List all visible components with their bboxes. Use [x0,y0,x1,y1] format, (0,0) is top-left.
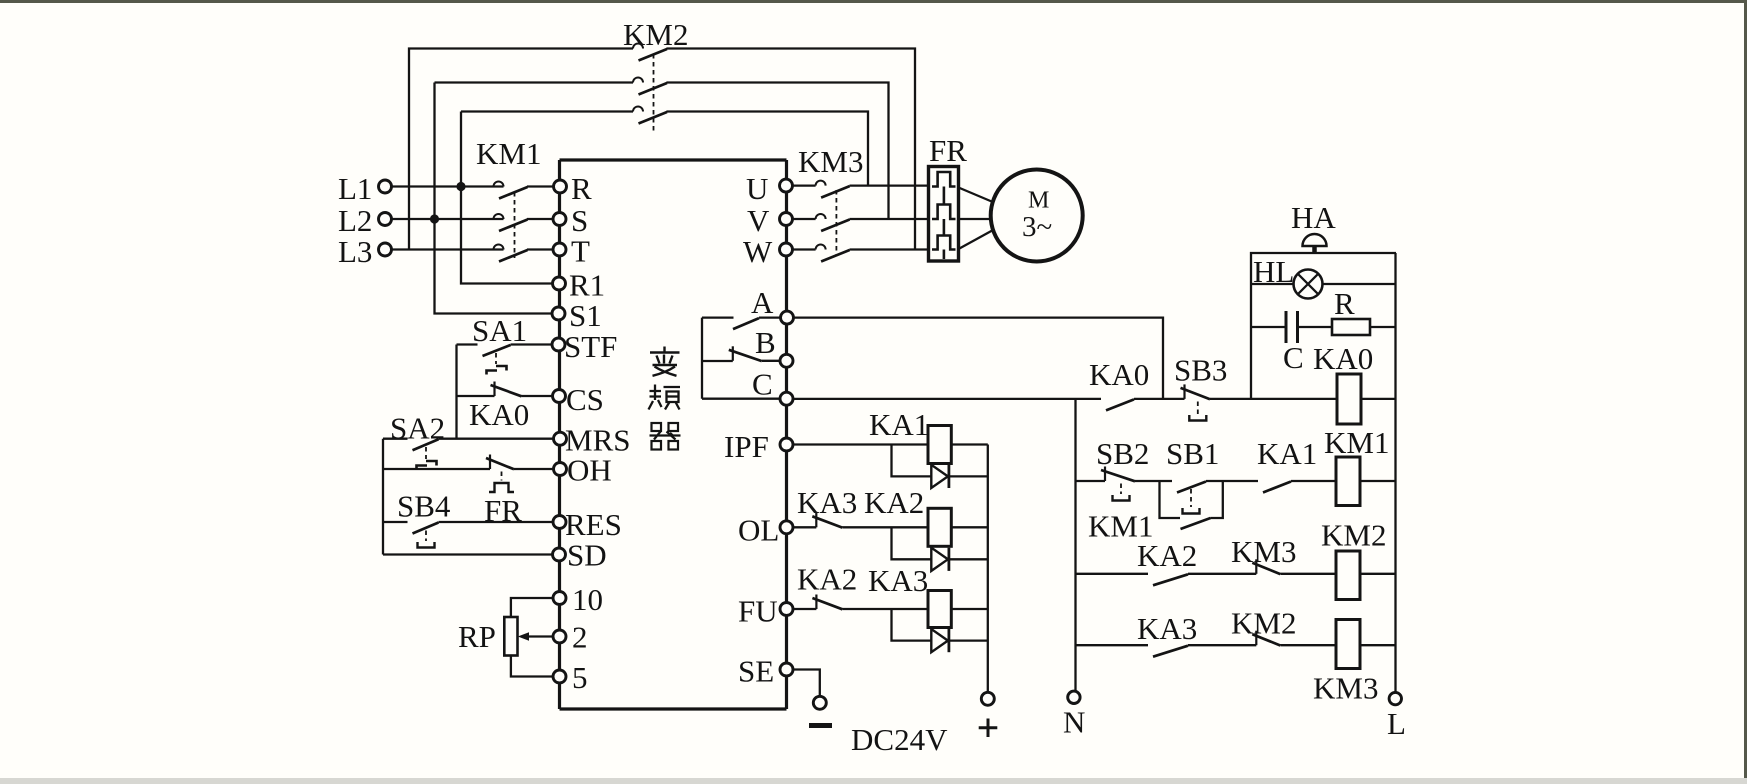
motor M 3~ [991,170,1083,262]
wire IPF row [793,443,928,445]
svg-text:CS: CS [566,382,604,417]
relay contact KA0 NC [491,382,522,397]
wire KM2 row2 right [667,83,889,220]
wire KM3-3 to FR [850,248,929,250]
svg-text:C: C [752,367,773,402]
svg-text:KA3: KA3 [1137,611,1197,646]
svg-text:KA1: KA1 [869,407,929,442]
terminal CS [553,390,566,403]
relay contact KA2 NO [1153,574,1188,585]
svg-text:OL: OL [738,513,779,548]
wire KM2 row3 right [667,112,869,187]
actuator dashes SB2 [1120,484,1122,495]
wire L2 row [392,218,504,220]
actuator dashes SB3 [1197,402,1199,415]
actuator dashes SA2 [425,447,427,459]
wire row1 a [1134,398,1185,400]
wire KM2 row3 left [461,110,633,112]
linkage KM1 [514,192,516,258]
svg-text:HA: HA [1291,200,1336,235]
svg-text:DC24V: DC24V [851,722,948,757]
wire row3 c [1360,573,1396,575]
svg-text:R: R [1334,286,1355,321]
wire row1 b [1210,398,1337,400]
relay contact KA2 NC [812,595,842,610]
svg-text:U: U [746,171,768,206]
wire IPF out [951,443,988,445]
wire cap to R [1299,326,1332,328]
terminal L3 [379,243,392,256]
wire HL box top [1251,253,1396,399]
contactor coil KM3 [1336,620,1360,669]
wire SD row [383,553,553,555]
pushbutton SB3 NC [1181,384,1211,399]
wire KA2 diode out [949,558,988,560]
svg-text:N: N [1063,705,1085,740]
relay coil KA2 [928,508,951,546]
wire KM3-2 to FR [850,218,929,220]
contactor contact KM3-3 [816,245,850,262]
terminal L [1389,692,1401,704]
wire OH row left [383,468,490,470]
wire SA2 to MRS [439,438,554,440]
relay contact KA3 NO [1153,646,1188,657]
wire ABC common rail [701,318,703,399]
contactor contact KM1-2 [494,214,528,231]
wire row4 c [1360,644,1396,646]
wire KA1 diode out [949,475,988,477]
terminal OH [554,463,567,476]
terminal T [553,243,566,256]
wire FR to OH [514,468,554,470]
terminal IPF [780,438,793,451]
bell HA [1303,234,1327,253]
wire FR to motor mid [959,218,991,220]
terminal 10 [553,592,566,605]
terminal MRS [554,432,567,445]
svg-text:KM3: KM3 [798,144,863,179]
contactor contact KM2-2 [633,78,667,95]
heater element FR phase1 [932,172,956,205]
svg-text:KA0: KA0 [1089,357,1149,392]
wire U to KM3-1 [793,184,816,186]
wire row3 left [1076,573,1149,575]
linkage KM3 [835,190,837,256]
wire SA1 to STF [511,343,553,345]
svg-text:B: B [755,325,776,360]
linkage KM2 [653,54,655,132]
wire KM1 bypass frame [1160,481,1223,518]
wire KM1-2 to S [527,218,553,220]
svg-text:L3: L3 [338,234,372,269]
svg-text:KA3: KA3 [868,563,928,598]
wire KA0 to CS [522,395,553,397]
contactor contact KM3 NC [1252,559,1280,574]
relay contact A [733,318,759,329]
wire KA1 diode tap [892,445,932,477]
wire row2 left [1076,480,1106,482]
actuator dashes SB1 [1190,489,1192,507]
svg-text:2: 2 [572,620,588,655]
wire SA1 left [457,343,478,345]
svg-text:FR: FR [929,133,967,168]
terminal 2 [553,630,566,643]
lamp HL [1294,270,1323,299]
wire MRS tie left rail [382,439,384,555]
contactor contact KM1-1 [494,182,528,199]
relay coil KA0 [1337,374,1361,424]
svg-text:10: 10 [572,582,603,617]
terminal R [554,180,567,193]
wire FU row right [842,608,928,610]
svg-text:OH: OH [567,453,612,488]
wire KA3 diode tap [892,609,932,641]
wire OL row right [842,526,928,528]
wire 10 to pot top [511,598,553,617]
svg-text:3~: 3~ [1022,211,1052,243]
svg-text:SB2: SB2 [1096,436,1149,471]
minus sign [809,723,832,728]
wire A contact left [702,316,734,318]
wire 5 to pot bottom [511,656,553,677]
svg-text:SD: SD [567,538,607,573]
contactor contact KM3-2 [816,214,850,231]
terminal C [780,392,793,405]
pushbutton SB4 [413,523,439,534]
svg-text:SB3: SB3 [1174,353,1227,388]
wire SB4 to RES [439,521,554,523]
wire OL out [951,526,988,528]
junction L1-R1 tap [456,182,465,191]
switch SA1 [483,345,511,356]
svg-text:R: R [571,171,592,206]
svg-text:C: C [1283,340,1304,375]
wire C row [702,398,780,400]
contactor contact KM1-3 [494,245,528,262]
heater element FR phase2 [932,205,956,236]
svg-text:STF: STF [564,329,617,364]
thermal relay contact FR NC [486,455,514,470]
pushbutton SB2 NC [1101,467,1135,482]
pushbutton actuator SB1 [1183,508,1200,514]
terminal V [780,213,793,226]
potentiometer RP body [504,617,517,656]
contactor coil KM1 [1336,457,1360,506]
junction L2-S1 tap [430,214,439,223]
diode VD3 [931,629,949,652]
plus sign [979,719,998,738]
relay contact B NC [729,346,762,361]
wire FR to motor bottom [959,230,995,250]
wire lamp row left [1251,283,1294,285]
wire row2 a [1135,480,1172,482]
wire left rail N [1074,399,1076,691]
pushbutton actuator SB4 [418,542,435,548]
terminal OL [780,521,793,534]
wire W to KM3-3 [793,248,816,250]
wire row4 left [1076,644,1149,646]
actuator dashes SB4 [425,531,427,542]
terminal S1 [552,307,565,320]
relay contact KA1 NO [1263,482,1291,493]
svg-text:5: 5 [572,660,588,695]
wire row2 d [1360,480,1396,482]
terminal B [780,354,793,367]
svg-text:T: T [571,234,590,269]
svg-text:L2: L2 [338,203,372,238]
wire row3 a [1188,573,1256,575]
wire row4 a [1188,644,1256,646]
terminal L2 [379,213,392,226]
wire row3 b [1280,573,1336,575]
wire KM1-1 to R [527,185,553,187]
trip dashes FR [501,472,503,481]
terminal S [553,213,566,226]
svg-text:KA0: KA0 [1313,341,1373,376]
terminal U [780,179,793,192]
actuator dashes SA1 [495,353,497,364]
switch SA2 [413,439,439,450]
svg-text:IPF: IPF [724,429,769,464]
wire KA0 left [457,395,495,397]
terminal R1 [553,277,566,290]
svg-text:KM2: KM2 [1321,518,1386,553]
wire KM2 row1 left [409,49,633,250]
thermal trip symbol FR [489,483,514,492]
wire C to control rail [793,398,1101,400]
wire B contact left [702,360,733,362]
contactor contact KM2-3 [633,107,667,124]
wire FR to motor top [959,188,995,203]
svg-text:KA2: KA2 [1137,538,1197,573]
wire V to KM3-2 [793,218,816,220]
text 变 (inverter label char 1) [650,347,680,376]
svg-text:A: A [751,285,774,320]
wire row1 c [1361,398,1396,400]
svg-text:KA2: KA2 [864,485,924,520]
terminal minus [813,696,826,709]
terminal FU [780,603,793,616]
terminal SE [780,663,793,676]
terminal plus [981,692,994,705]
manual actuator SA1 [487,366,507,375]
wire KM2 row1 right [667,49,916,250]
svg-text:SE: SE [738,654,774,689]
terminal W [780,243,793,256]
svg-text:SB1: SB1 [1166,436,1219,471]
terminal L1 [379,180,392,193]
wire KM1-3 to T [527,248,553,250]
wire L2 tap down to S1 [435,83,553,314]
wire row2 c [1291,480,1336,482]
wire R to right rail [1370,326,1396,328]
svg-text:L: L [1387,706,1406,741]
wire SA2 left [383,438,408,440]
wire plus rail [987,445,989,693]
svg-text:SB4: SB4 [397,489,451,524]
wire FU out [951,608,988,610]
svg-text:SA1: SA1 [472,313,527,348]
wire L3 row [392,248,504,250]
svg-text:KA0: KA0 [469,397,529,432]
wire A contact to A [759,316,781,318]
terminal A [781,311,794,324]
heater element FR phase3 [932,236,956,260]
contactor contact KM2-1 [633,44,667,61]
wire KA2 diode tap [892,527,932,559]
svg-text:KA1: KA1 [1257,436,1317,471]
svg-text:V: V [747,203,770,238]
contactor contact KM2 NC [1252,631,1280,646]
contactor coil KM2 [1336,551,1360,600]
text 器 (inverter label char 3) [650,423,681,450]
pushbutton actuator SB3 [1189,415,1206,421]
wire SB4 left [383,521,408,523]
manual actuator SA2 [417,461,437,470]
wire SE to minus [793,670,820,697]
capacitor C [1286,311,1298,343]
svg-text:W: W [743,234,773,269]
terminal RES [553,516,566,529]
relay contact KA3 NC [812,513,842,528]
svg-text:KA2: KA2 [797,562,857,597]
svg-text:S1: S1 [569,298,602,333]
svg-text:KM2: KM2 [1231,606,1296,641]
svg-text:KM1: KM1 [476,136,541,171]
relay coil KA1 [928,426,951,464]
relay coil KA3 [928,591,951,628]
diode VD1 [931,465,949,488]
wire A to KA0 bypass [794,318,1164,399]
wire L1 row [392,185,504,187]
resistor R [1332,319,1370,335]
inverter box 变频器 [560,160,787,709]
wire L1 tap down to R1 [461,112,553,284]
wire lamp row right [1323,283,1397,285]
svg-text:KM3: KM3 [1313,671,1378,706]
contactor contact KM3-1 [816,181,850,198]
text 频 (inverter label char 2) [649,385,681,410]
wire STF-CS-MRS tie [455,345,457,439]
terminal SD [553,548,566,561]
svg-text:M: M [1028,188,1049,214]
wire KM3-1 to FR [850,184,929,186]
pushbutton actuator SB2 [1113,495,1130,501]
terminal N [1068,691,1080,703]
wire right rail L [1394,253,1396,692]
svg-text:KM1: KM1 [1324,425,1389,460]
svg-text:KM3: KM3 [1231,534,1296,569]
svg-text:KA3: KA3 [797,485,857,520]
svg-text:FU: FU [738,594,778,629]
thermal overload relay FR box [929,167,959,262]
wire KA3 diode out [949,639,988,641]
relay contact KA0 NO [1106,399,1134,410]
wire row2 b [1206,480,1258,482]
contactor aux contact KM1 NO [1181,518,1211,529]
wire OL row left [793,526,816,528]
pushbutton SB1 NO [1177,482,1206,493]
wire B contact to B [762,360,780,362]
svg-text:L1: L1 [338,171,372,206]
wire KM2 row2 left [435,81,634,83]
wire row4 b [1280,644,1336,646]
svg-text:RP: RP [458,619,496,654]
diode VD2 [931,548,949,571]
wire FU row left [793,608,816,610]
wire cap row left [1251,326,1285,328]
terminal 5 [553,670,566,683]
terminal STF [552,338,565,351]
potentiometer RP wiper arrow [518,632,553,641]
